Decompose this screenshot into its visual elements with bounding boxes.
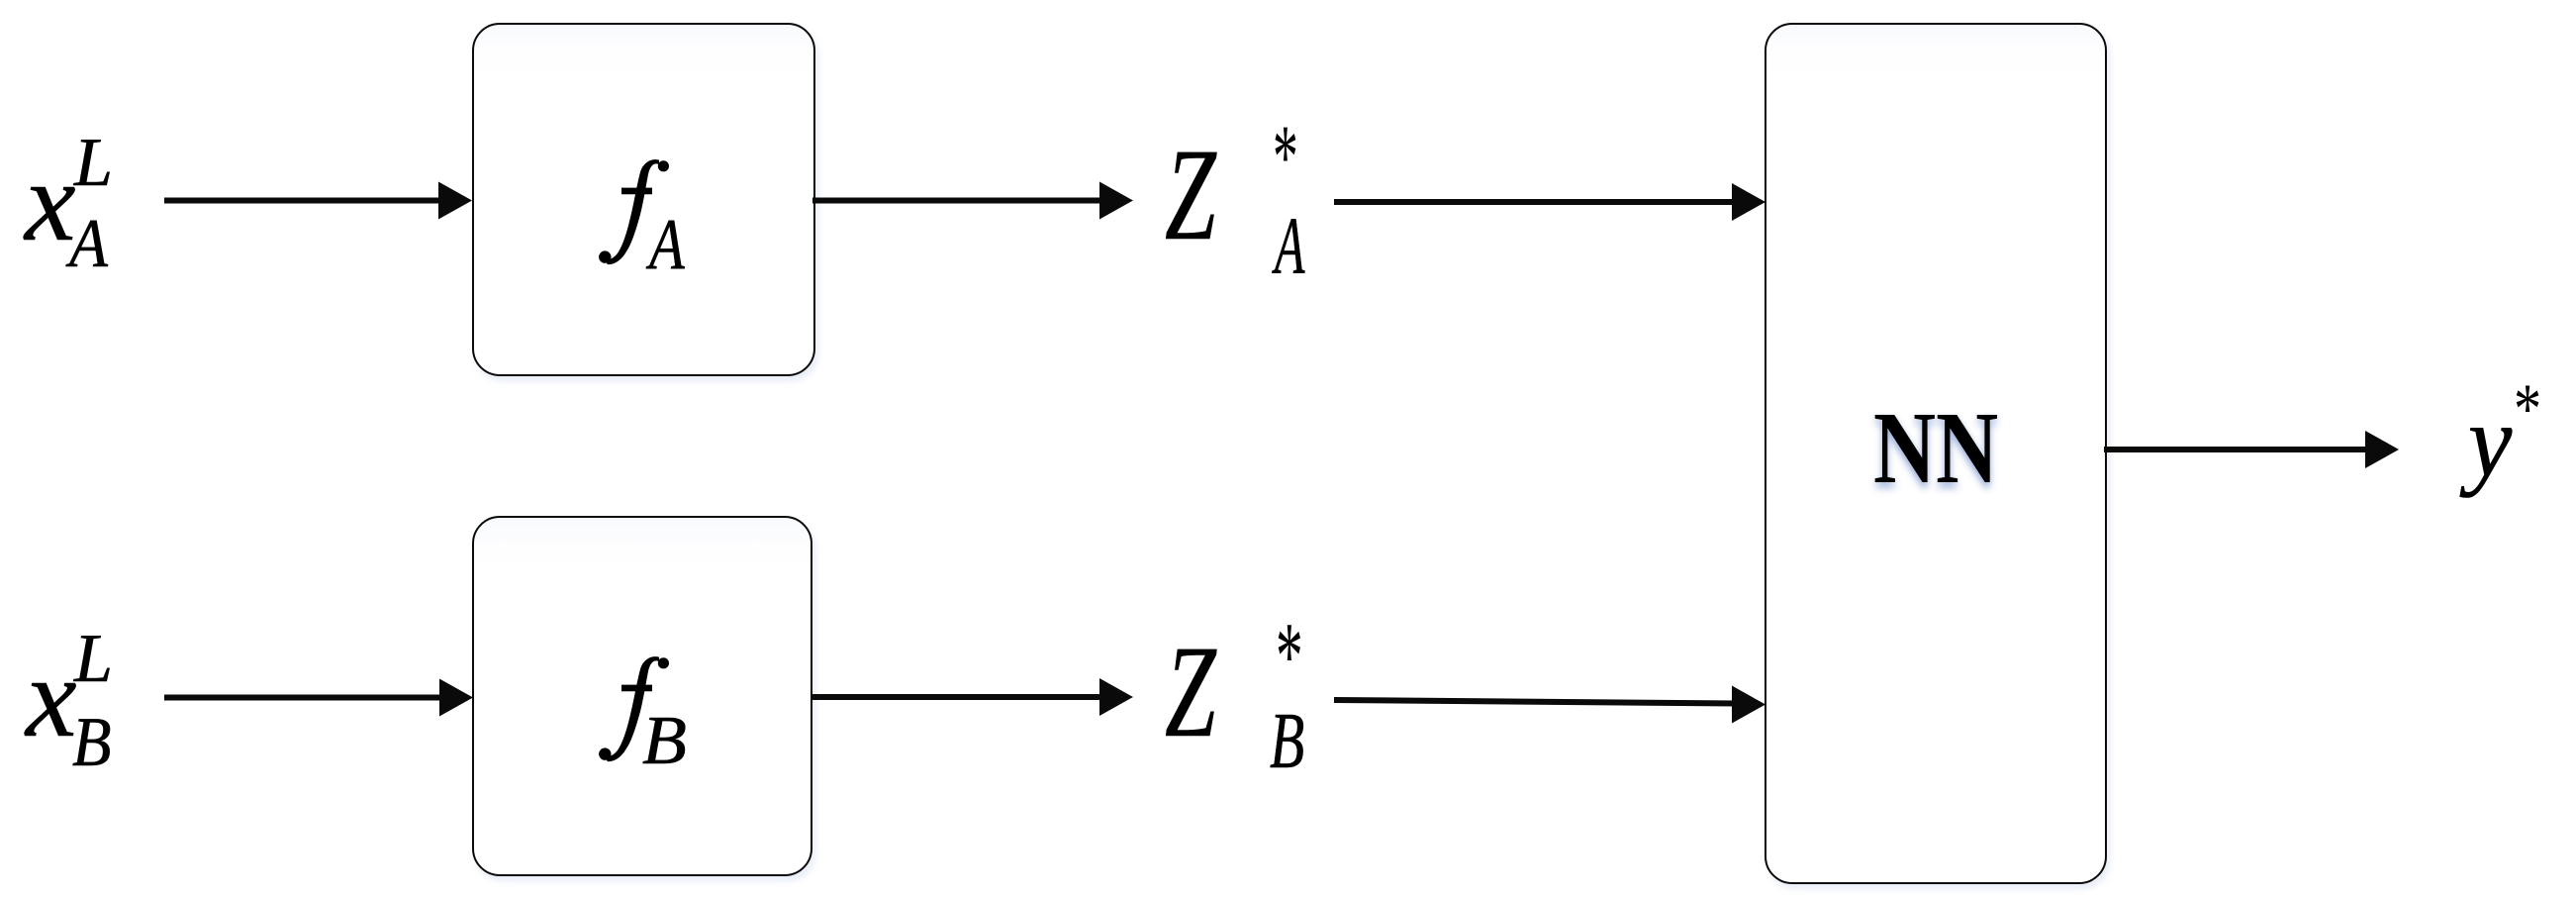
arrow fB to ZB: [811, 678, 1133, 716]
node y* : y: [2468, 390, 2512, 493]
node xBL : sup L: [74, 625, 113, 694]
box NN: [1765, 23, 2107, 884]
arrow xB to fB: [164, 679, 473, 717]
node ZB* : sub B: [1270, 702, 1304, 781]
node ZB* : Z: [1165, 626, 1216, 757]
label fA : sub A: [649, 208, 685, 280]
label NN: [1873, 397, 1998, 500]
box fA: [472, 23, 816, 377]
box fB: [472, 516, 812, 876]
node ZA* : Z: [1165, 129, 1216, 260]
node ZB* : sup *: [1276, 608, 1303, 704]
label fB : f (drawn): [596, 653, 677, 766]
arrow ZB to NN: [1334, 686, 1765, 724]
arrow fA to ZA: [812, 182, 1133, 220]
arrow ZA to NN: [1334, 183, 1765, 221]
node ZA* : sub A: [1275, 205, 1304, 287]
label fB : sub B: [642, 707, 687, 776]
node ZA* : sup *: [1273, 111, 1298, 202]
arrow NN to y: [2104, 431, 2399, 468]
node xAL : x: [25, 145, 76, 259]
node xBL : x: [26, 641, 77, 755]
node xBL : sub B: [72, 708, 111, 778]
node xAL : sub A: [69, 210, 108, 279]
node y* : sup *: [2514, 373, 2541, 445]
label fA : f (drawn): [596, 156, 677, 269]
arrow xA to fA: [164, 182, 472, 220]
node xAL : sup L: [74, 129, 113, 198]
